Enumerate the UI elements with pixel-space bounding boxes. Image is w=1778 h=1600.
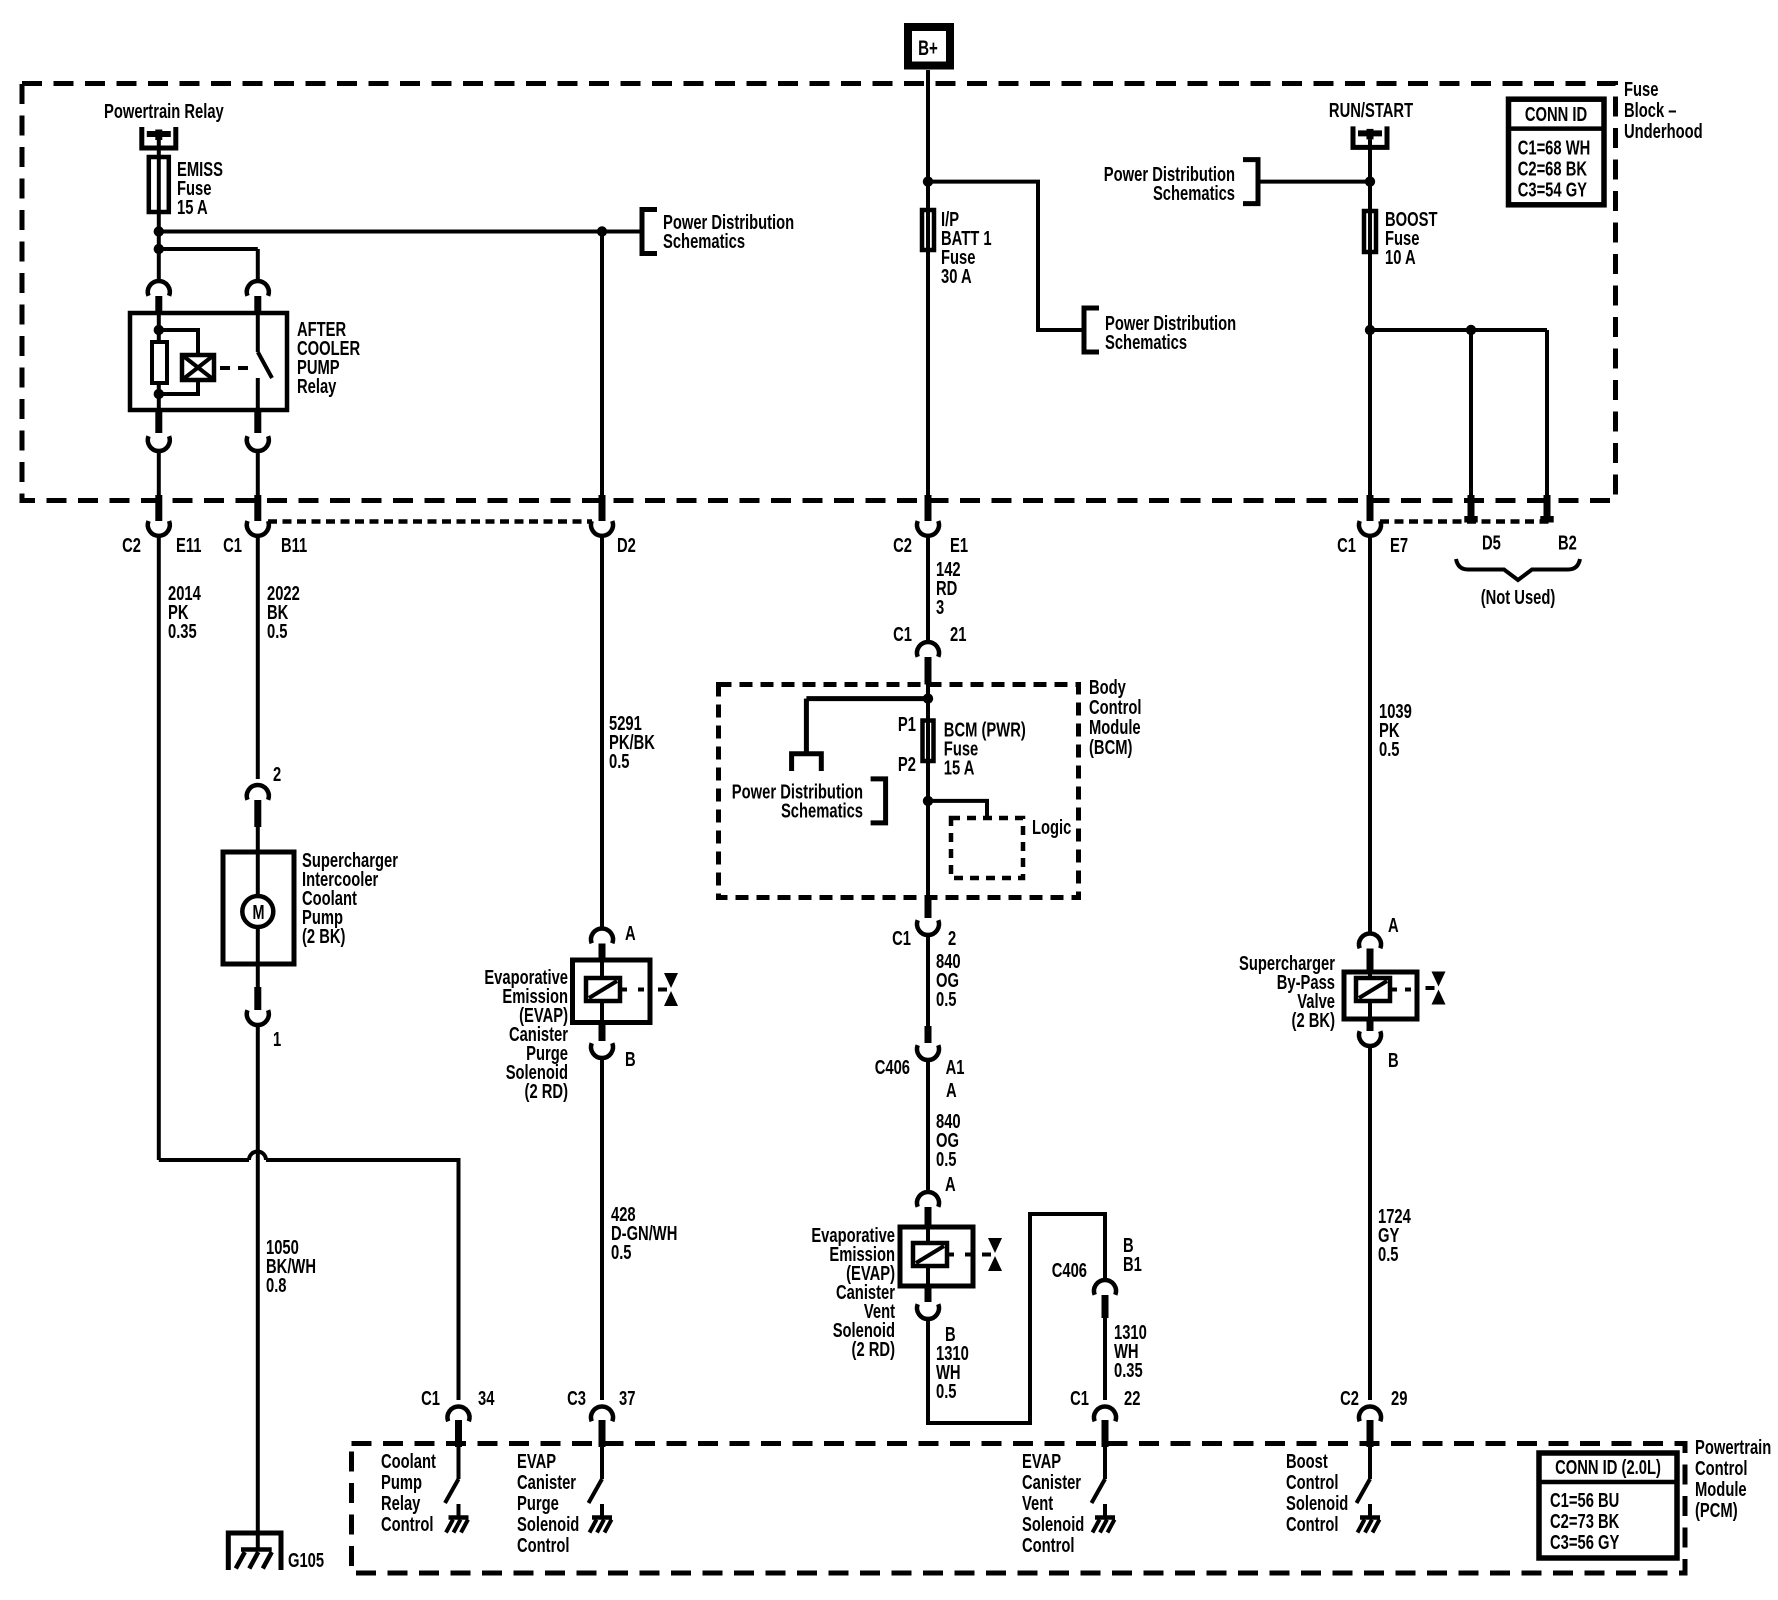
svg-text:CoolantPumpRelayControl: CoolantPumpRelayControl bbox=[381, 1450, 436, 1536]
svg-text:BOOSTFuse10 A: BOOSTFuse10 A bbox=[1385, 208, 1438, 269]
svg-text:C406: C406 bbox=[1052, 1259, 1087, 1282]
svg-text:C1: C1 bbox=[223, 534, 242, 557]
svg-text:2014PK0.35: 2014PK0.35 bbox=[168, 582, 201, 643]
svg-text:Power DistributionSchematics: Power DistributionSchematics bbox=[1104, 163, 1235, 205]
svg-text:C1: C1 bbox=[421, 1387, 440, 1410]
svg-text:B: B bbox=[625, 1048, 636, 1071]
svg-text:A: A bbox=[625, 922, 636, 945]
svg-text:Powertrain Relay: Powertrain Relay bbox=[104, 100, 224, 123]
svg-text:CONN ID: CONN ID bbox=[1525, 103, 1587, 126]
svg-text:1310WH0.35: 1310WH0.35 bbox=[1114, 1321, 1147, 1382]
svg-text:34: 34 bbox=[478, 1387, 494, 1410]
svg-text:5291PK/BK0.5: 5291PK/BK0.5 bbox=[609, 712, 655, 773]
svg-text:BodyControlModule(BCM): BodyControlModule(BCM) bbox=[1089, 676, 1141, 759]
svg-text:EvaporativeEmission(EVAP)Canis: EvaporativeEmission(EVAP)CanisterVentSol… bbox=[811, 1224, 895, 1361]
svg-text:428D-GN/WH0.5: 428D-GN/WH0.5 bbox=[611, 1203, 677, 1264]
svg-text:B+: B+ bbox=[918, 35, 938, 59]
svg-text:(Not Used): (Not Used) bbox=[1481, 586, 1556, 609]
svg-text:Power DistributionSchematics: Power DistributionSchematics bbox=[1105, 312, 1236, 354]
svg-text:I/PBATT 1Fuse30 A: I/PBATT 1Fuse30 A bbox=[941, 208, 992, 288]
svg-text:B2: B2 bbox=[1558, 531, 1577, 554]
svg-text:C1: C1 bbox=[1070, 1387, 1089, 1410]
svg-text:B11: B11 bbox=[281, 534, 307, 557]
svg-text:AFTERCOOLERPUMPRelay: AFTERCOOLERPUMPRelay bbox=[297, 318, 360, 398]
svg-text:EVAPCanisterVentSolenoidContro: EVAPCanisterVentSolenoidControl bbox=[1022, 1450, 1084, 1557]
svg-text:G105: G105 bbox=[288, 1549, 324, 1572]
svg-text:1050BK/WH0.8: 1050BK/WH0.8 bbox=[266, 1236, 316, 1297]
svg-text:C1: C1 bbox=[893, 623, 912, 646]
svg-text:Logic: Logic bbox=[1032, 816, 1071, 839]
svg-text:B: B bbox=[1388, 1049, 1399, 1072]
svg-text:2: 2 bbox=[948, 927, 956, 950]
svg-text:22: 22 bbox=[1124, 1387, 1140, 1410]
svg-text:29: 29 bbox=[1391, 1387, 1407, 1410]
svg-text:37: 37 bbox=[619, 1387, 635, 1410]
svg-text:840OG0.5: 840OG0.5 bbox=[936, 950, 961, 1011]
svg-text:RUN/START: RUN/START bbox=[1329, 99, 1413, 122]
svg-text:E7: E7 bbox=[1390, 534, 1408, 557]
svg-text:P1: P1 bbox=[898, 713, 916, 736]
svg-text:Power DistributionSchematics: Power DistributionSchematics bbox=[732, 780, 863, 822]
svg-text:C2: C2 bbox=[122, 534, 141, 557]
svg-text:C2: C2 bbox=[893, 534, 912, 557]
svg-text:E1: E1 bbox=[950, 534, 968, 557]
svg-text:PowertrainControlModule(PCM): PowertrainControlModule(PCM) bbox=[1695, 1436, 1771, 1522]
svg-text:840OG0.5: 840OG0.5 bbox=[936, 1110, 961, 1171]
svg-text:SuperchargerBy-PassValve(2 BK): SuperchargerBy-PassValve(2 BK) bbox=[1239, 952, 1335, 1032]
svg-text:C1: C1 bbox=[1337, 534, 1356, 557]
svg-text:C2: C2 bbox=[1340, 1387, 1359, 1410]
svg-text:21: 21 bbox=[950, 623, 966, 646]
svg-text:P2: P2 bbox=[898, 753, 916, 776]
svg-text:142RD3: 142RD3 bbox=[936, 558, 961, 619]
svg-text:CONN ID (2.0L): CONN ID (2.0L) bbox=[1555, 1456, 1661, 1479]
svg-text:1: 1 bbox=[273, 1028, 281, 1051]
svg-text:BoostControlSolenoidControl: BoostControlSolenoidControl bbox=[1286, 1450, 1348, 1536]
svg-text:C406: C406 bbox=[875, 1056, 910, 1079]
svg-text:E11: E11 bbox=[176, 534, 201, 557]
svg-text:EMISSFuse15 A: EMISSFuse15 A bbox=[177, 158, 223, 219]
svg-text:1039PK0.5: 1039PK0.5 bbox=[1379, 700, 1412, 761]
svg-text:C3: C3 bbox=[567, 1387, 586, 1410]
svg-text:2022BK0.5: 2022BK0.5 bbox=[267, 582, 300, 643]
svg-text:D5: D5 bbox=[1482, 531, 1501, 554]
svg-text:C1=68 WHC2=68 BKC3=54 GY: C1=68 WHC2=68 BKC3=54 GY bbox=[1518, 136, 1591, 201]
svg-text:BCM (PWR)Fuse15 A: BCM (PWR)Fuse15 A bbox=[944, 718, 1026, 779]
svg-text:FuseBlock –Underhood: FuseBlock –Underhood bbox=[1624, 78, 1703, 143]
svg-text:A1: A1 bbox=[946, 1056, 965, 1079]
svg-text:M: M bbox=[253, 901, 265, 924]
svg-text:1724GY0.5: 1724GY0.5 bbox=[1378, 1205, 1411, 1266]
svg-text:A: A bbox=[945, 1173, 956, 1196]
svg-text:C1=56 BUC2=73 BKC3=56 GY: C1=56 BUC2=73 BKC3=56 GY bbox=[1550, 1489, 1619, 1554]
svg-text:C1: C1 bbox=[892, 927, 911, 950]
svg-text:EVAPCanisterPurgeSolenoidContr: EVAPCanisterPurgeSolenoidControl bbox=[517, 1450, 579, 1557]
svg-text:2: 2 bbox=[273, 763, 281, 786]
svg-text:SuperchargerIntercoolerCoolant: SuperchargerIntercoolerCoolantPump(2 BK) bbox=[302, 849, 398, 948]
svg-text:A: A bbox=[1388, 914, 1399, 937]
svg-text:EvaporativeEmission(EVAP)Canis: EvaporativeEmission(EVAP)CanisterPurgeSo… bbox=[484, 966, 568, 1103]
svg-text:A: A bbox=[946, 1079, 957, 1102]
svg-text:Power DistributionSchematics: Power DistributionSchematics bbox=[663, 211, 794, 253]
svg-text:D2: D2 bbox=[617, 534, 636, 557]
svg-text:1310WH0.5: 1310WH0.5 bbox=[936, 1342, 969, 1403]
svg-text:B1: B1 bbox=[1123, 1253, 1142, 1276]
